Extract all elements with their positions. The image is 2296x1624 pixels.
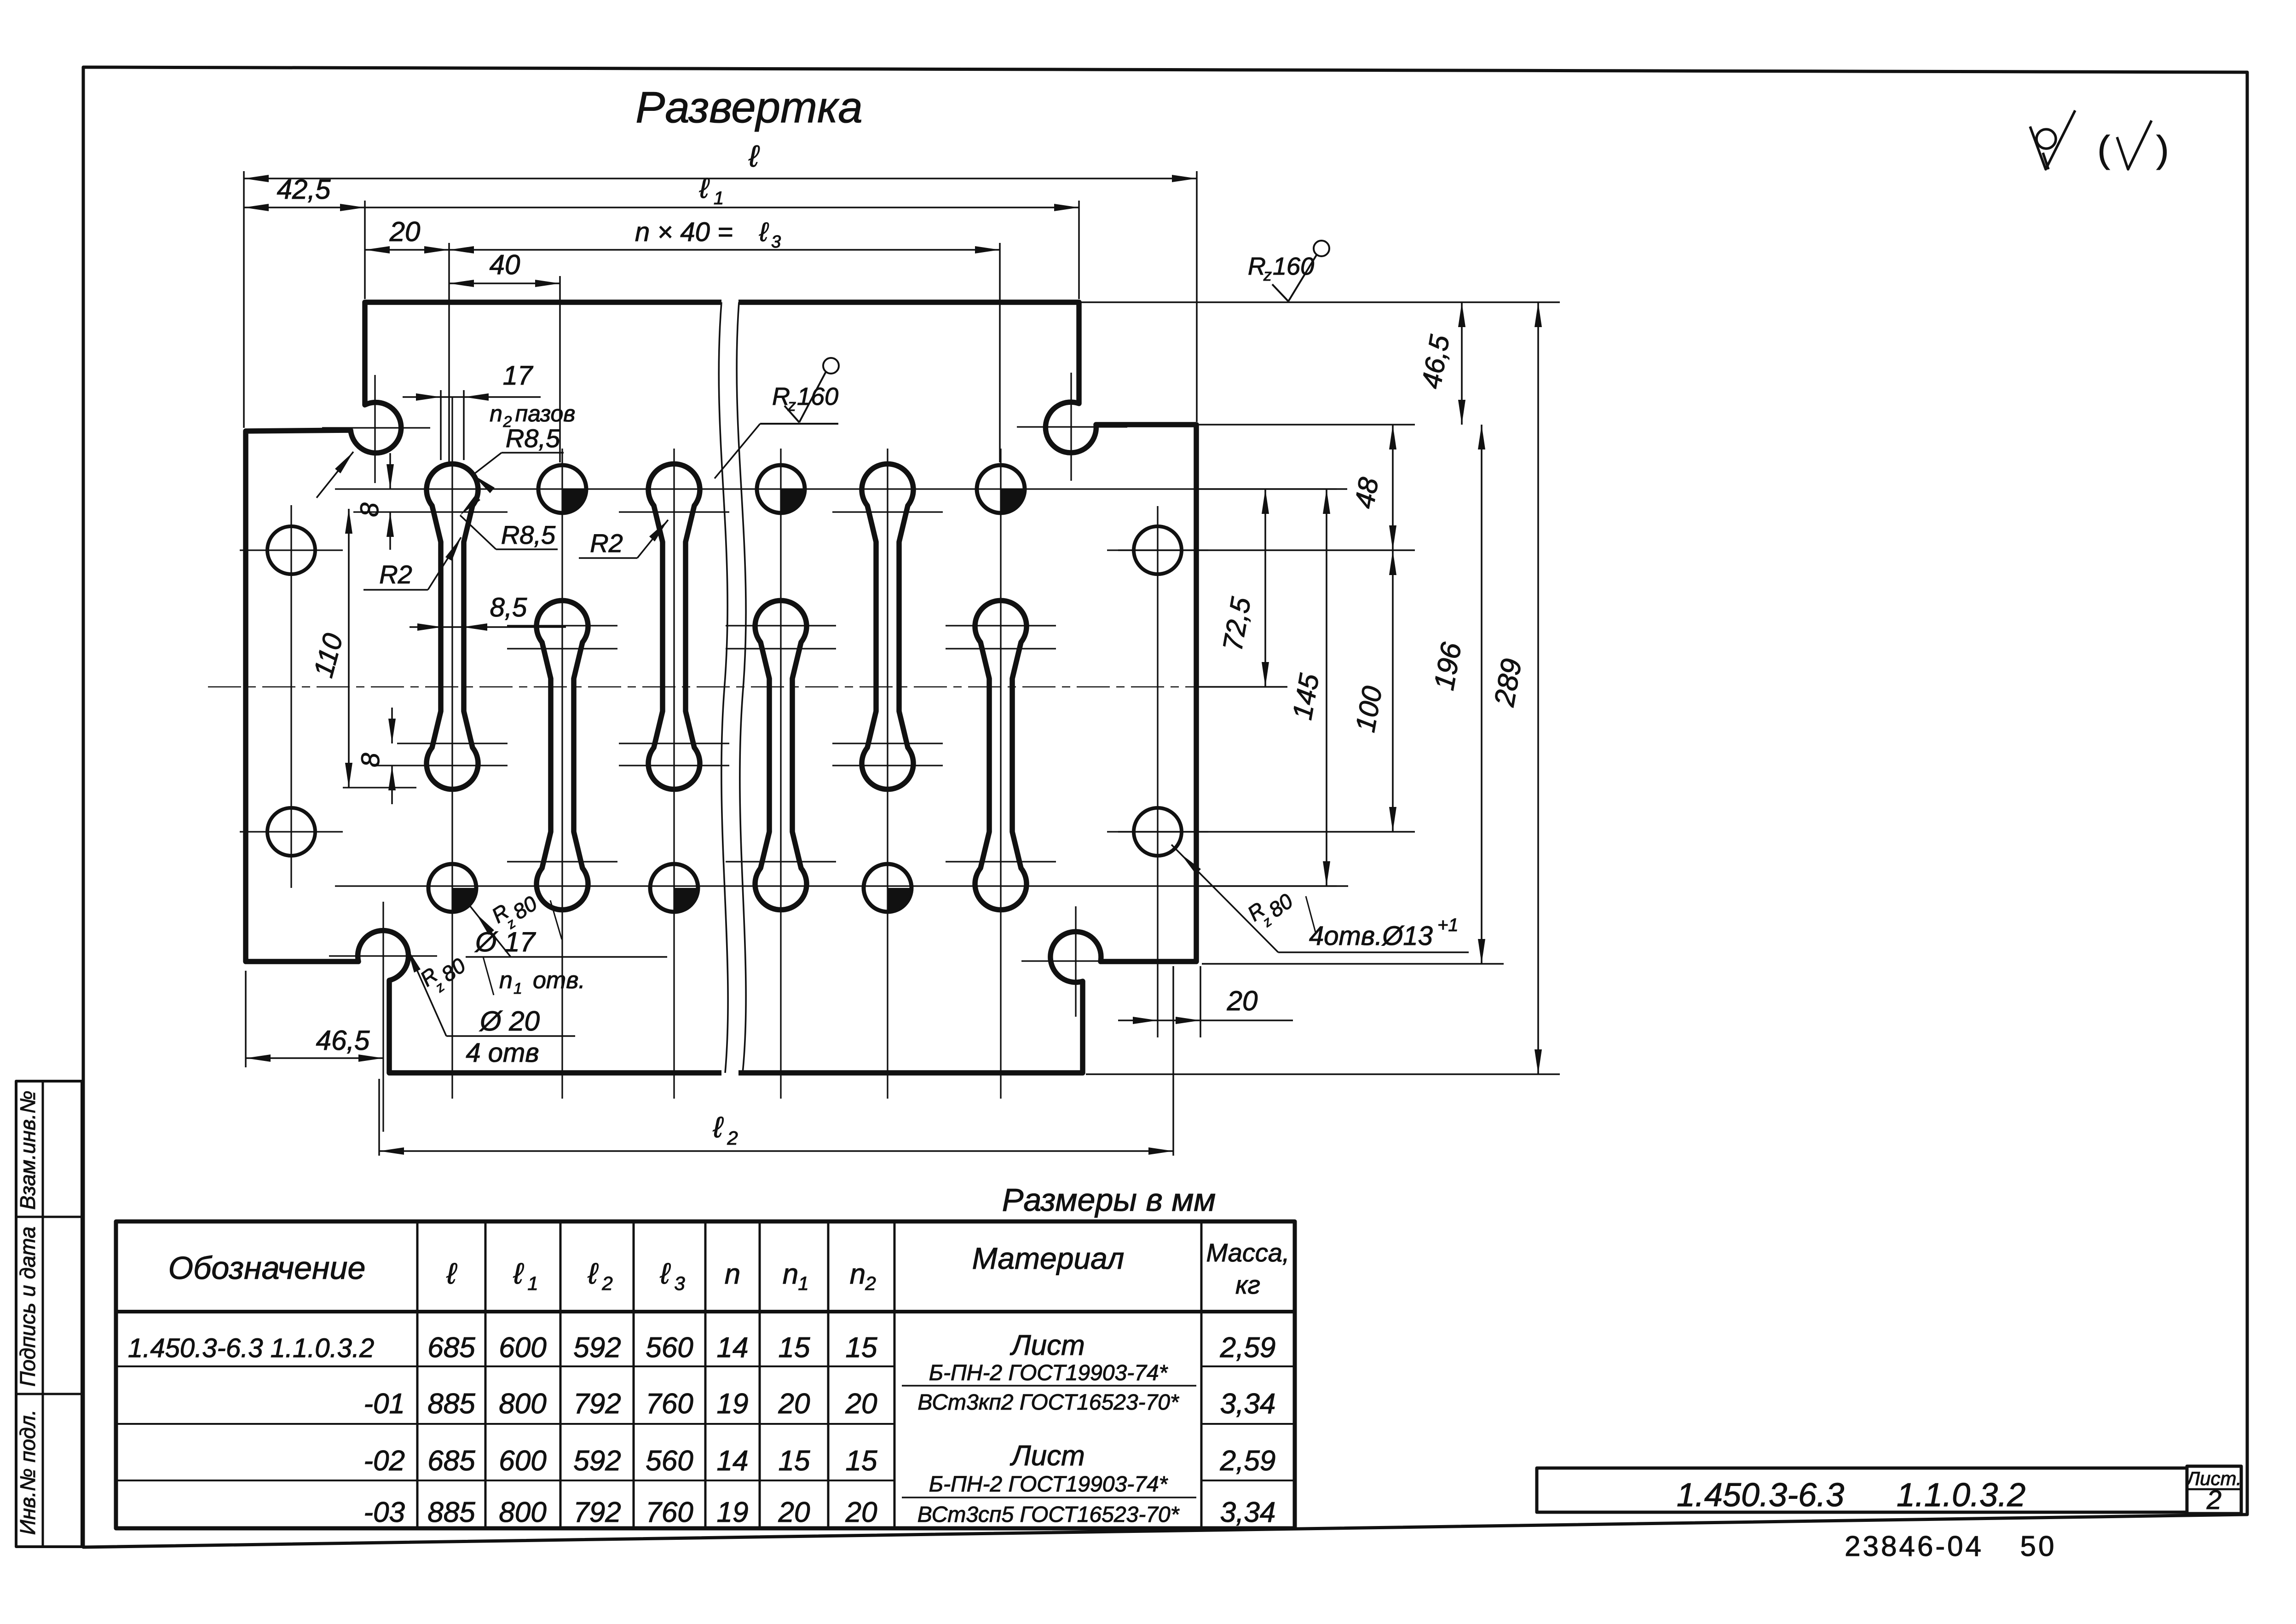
- svg-text:R2: R2: [379, 560, 412, 589]
- hole d13 right top: [1107, 526, 1208, 574]
- table header: [168, 1238, 1290, 1299]
- svg-text:2,59: 2,59: [1220, 1445, 1276, 1477]
- svg-text:ℓ: ℓ: [446, 1257, 457, 1290]
- svg-text:685: 685: [427, 1445, 475, 1477]
- svg-text:ℓ: ℓ: [759, 217, 769, 247]
- d13 left column centerline: [290, 505, 292, 888]
- svg-text:Подпись и дата: Подпись и дата: [16, 1227, 40, 1387]
- svg-text:20: 20: [389, 216, 421, 247]
- svg-text:800: 800: [499, 1388, 546, 1420]
- svg-text:Б-ПН-2 ГОСТ19903-74*: Б-ПН-2 ГОСТ19903-74*: [929, 1472, 1168, 1497]
- svg-text:8,5: 8,5: [490, 593, 527, 622]
- note R8,5 upper: [473, 424, 564, 493]
- svg-text:Обозначение: Обозначение: [168, 1250, 366, 1286]
- svg-text:пазов: пазов: [515, 401, 576, 426]
- svg-text:ℓ: ℓ: [748, 139, 760, 173]
- svg-text:15: 15: [779, 1332, 810, 1364]
- slot A2: [648, 464, 700, 789]
- svg-text:n: n: [783, 1258, 798, 1290]
- svg-text:8: 8: [355, 502, 384, 517]
- svg-text:-01: -01: [363, 1388, 405, 1420]
- dim 289: [1488, 302, 1542, 1074]
- hole d17 #5: [650, 864, 698, 912]
- svg-text:23846-04: 23846-04: [1845, 1531, 1984, 1562]
- svg-text:19: 19: [717, 1497, 749, 1528]
- svg-text:ВСт3кп2 ГОСТ16523-70*: ВСт3кп2 ГОСТ16523-70*: [917, 1390, 1179, 1415]
- dim 20 top: [365, 216, 449, 253]
- hole d13 left bottom: [240, 808, 343, 856]
- svg-text:2: 2: [727, 1127, 738, 1149]
- svg-text:n × 40 =: n × 40 =: [635, 217, 733, 247]
- svg-text:n: n: [499, 967, 513, 994]
- svg-text:Б-ПН-2 ГОСТ19903-74*: Б-ПН-2 ГОСТ19903-74*: [929, 1361, 1168, 1385]
- svg-text:ℓ: ℓ: [713, 1111, 724, 1144]
- dim 48: [1349, 425, 1396, 550]
- svg-text:ВСт3сп5 ГОСТ16523-70*: ВСт3сп5 ГОСТ16523-70*: [917, 1503, 1180, 1527]
- svg-text:1: 1: [798, 1273, 808, 1294]
- svg-text:792: 792: [573, 1497, 621, 1528]
- title block doc number: [1677, 1477, 2025, 1514]
- svg-text:2: 2: [601, 1273, 612, 1294]
- svg-text:46,5: 46,5: [316, 1025, 370, 1056]
- svg-text:1: 1: [513, 980, 522, 997]
- svg-text:17: 17: [503, 361, 534, 391]
- note 4 otv d13: [1171, 845, 1469, 952]
- dim 20 bottom right: [1118, 966, 1293, 1037]
- svg-text:15: 15: [846, 1445, 877, 1477]
- svg-text:1: 1: [714, 188, 724, 208]
- dim n x 40 = L3: [449, 217, 1000, 253]
- hole d17 #6: [864, 864, 911, 912]
- svg-text:14: 14: [717, 1332, 749, 1364]
- svg-text:1: 1: [527, 1273, 538, 1294]
- svg-text:-02: -02: [363, 1445, 405, 1477]
- svg-text:14: 14: [717, 1445, 749, 1477]
- dim 145: [1286, 489, 1330, 886]
- svg-text:Размеры в мм: Размеры в мм: [1002, 1182, 1216, 1218]
- svg-text:1.1.0.3.2: 1.1.0.3.2: [1897, 1477, 2025, 1514]
- svg-text:3: 3: [771, 232, 781, 252]
- svg-text:160: 160: [1273, 253, 1314, 280]
- svg-text:2: 2: [2206, 1485, 2221, 1515]
- svg-text:3: 3: [674, 1273, 685, 1294]
- svg-text:+1: +1: [1437, 915, 1459, 935]
- slot A3: [862, 464, 913, 789]
- dim 17 slots: [403, 361, 575, 460]
- parameters table grid: [116, 1221, 1295, 1528]
- dim 196: [1428, 425, 1485, 964]
- svg-text:1.450.3-6.3 1.1.0.3.2: 1.450.3-6.3 1.1.0.3.2: [128, 1333, 374, 1363]
- svg-text:отв.: отв.: [533, 967, 585, 994]
- svg-text:n: n: [725, 1258, 740, 1290]
- svg-text:8: 8: [356, 753, 385, 767]
- slot B1: [537, 600, 588, 910]
- svg-text:Лист: Лист: [1010, 1330, 1085, 1361]
- svg-text:Взам.инв.№: Взам.инв.№: [16, 1091, 40, 1210]
- svg-text:4отв.Ø13: 4отв.Ø13: [1309, 921, 1433, 951]
- svg-text:800: 800: [499, 1497, 546, 1528]
- dim 46,5 right: [1416, 302, 1465, 425]
- break line: [719, 302, 746, 1073]
- note Rz160 outer: [1248, 241, 1329, 301]
- dim 46,5 bottom: [246, 971, 383, 1067]
- svg-text:Развертка: Развертка: [635, 83, 862, 132]
- notch BR centerlines: [1021, 906, 1132, 1017]
- view title Развертка: [635, 83, 862, 132]
- note R2 left: [363, 537, 461, 590]
- svg-text:n: n: [850, 1258, 865, 1290]
- slot reference ticks: [353, 512, 1056, 862]
- title block: [1537, 1466, 2241, 1514]
- svg-text:885: 885: [427, 1388, 475, 1420]
- svg-text:ℓ: ℓ: [513, 1257, 524, 1290]
- svg-text:40: 40: [490, 249, 520, 280]
- stamp number: [1845, 1531, 2057, 1562]
- svg-text:20: 20: [1227, 985, 1258, 1016]
- svg-text:n: n: [490, 401, 502, 426]
- svg-text:560: 560: [646, 1332, 693, 1364]
- svg-text:42,5: 42,5: [277, 174, 331, 205]
- part outline left portion: [246, 302, 721, 1073]
- notch BL centerlines: [329, 902, 437, 1132]
- svg-text:1.450.3-6.3: 1.450.3-6.3: [1677, 1477, 1844, 1514]
- svg-text:Материал: Материал: [972, 1241, 1125, 1275]
- svg-text:4 отв: 4 отв: [466, 1038, 539, 1068]
- dim 8 top: [355, 453, 394, 550]
- left strip caption Инв.№ подл.: [16, 1410, 40, 1535]
- dim 110: [307, 509, 416, 788]
- left strip caption Подпись и дата: [16, 1227, 40, 1387]
- dim 8 bottom: [356, 708, 396, 804]
- dim L: [244, 139, 1197, 182]
- note R8,5 lower: [460, 495, 558, 549]
- svg-text:19: 19: [717, 1388, 749, 1420]
- dim 42,5: [244, 174, 365, 211]
- dim L1: [365, 173, 1079, 211]
- bottom row centerline: [335, 885, 1337, 887]
- svg-text:z: z: [1263, 265, 1272, 284]
- svg-text:15: 15: [846, 1332, 877, 1364]
- svg-text:2,59: 2,59: [1220, 1332, 1276, 1364]
- svg-text:20: 20: [845, 1497, 877, 1528]
- table data: [128, 1332, 1275, 1528]
- svg-text:2: 2: [865, 1273, 876, 1294]
- svg-text:50: 50: [2020, 1531, 2057, 1562]
- svg-text:кг: кг: [1235, 1270, 1260, 1299]
- svg-text:Лист: Лист: [1010, 1440, 1085, 1472]
- svg-text:R8,5: R8,5: [501, 520, 556, 549]
- dim L2: [379, 966, 1173, 1156]
- svg-text:R2: R2: [590, 529, 623, 558]
- slot B3: [975, 600, 1027, 910]
- svg-text:Инв.№ подл.: Инв.№ подл.: [16, 1410, 40, 1535]
- svg-text:ℓ: ℓ: [588, 1257, 599, 1290]
- svg-text:Ø 17: Ø 17: [474, 927, 537, 957]
- notch TR centerlines: [1017, 373, 1127, 481]
- table material texts: [902, 1330, 1196, 1527]
- svg-text:-03: -03: [363, 1497, 405, 1528]
- dim 40: [449, 249, 560, 287]
- svg-text:20: 20: [845, 1388, 877, 1420]
- d13 right column centerline: [1157, 506, 1158, 1037]
- svg-text:600: 600: [499, 1332, 546, 1364]
- leader TL notch arrow: [317, 452, 353, 498]
- left strip boxes: [16, 1081, 82, 1547]
- svg-text:792: 792: [573, 1388, 621, 1420]
- hole d13 right bottom: [1107, 808, 1208, 856]
- svg-text:592: 592: [573, 1332, 621, 1364]
- svg-text:760: 760: [646, 1497, 693, 1528]
- dim 100: [1350, 550, 1396, 832]
- note R2 right: [579, 520, 668, 558]
- dim 72,5: [1217, 489, 1269, 687]
- right extension lines: [1079, 302, 1560, 1074]
- svg-text:R8,5: R8,5: [506, 424, 560, 453]
- surface finish mark: [2030, 110, 2075, 169]
- svg-text:20: 20: [778, 1497, 810, 1528]
- hole d17 #3: [977, 465, 1025, 513]
- svg-text:Масса,: Масса,: [1206, 1238, 1289, 1267]
- surface finish mark in parentheses: [2097, 121, 2169, 170]
- svg-text:600: 600: [499, 1445, 546, 1477]
- caption sizes: [1002, 1182, 1216, 1218]
- svg-text:48: 48: [1349, 475, 1385, 511]
- svg-text:3,34: 3,34: [1220, 1388, 1276, 1420]
- hole d13 left top: [240, 526, 343, 574]
- title block sheet label: [2185, 1468, 2241, 1489]
- svg-text:20: 20: [778, 1388, 810, 1420]
- svg-text:3,34: 3,34: [1220, 1497, 1276, 1528]
- svg-text:): ): [2156, 128, 2169, 170]
- part outline right portion: [738, 302, 1196, 1073]
- note Rz160 inner: [715, 358, 839, 478]
- svg-text:560: 560: [646, 1445, 693, 1477]
- svg-text:15: 15: [779, 1445, 810, 1477]
- svg-text:685: 685: [427, 1332, 475, 1364]
- top row centerline: [335, 488, 1337, 490]
- feature column centerlines: [452, 397, 1001, 1099]
- horizontal centerline: [208, 686, 1286, 687]
- note d20 notches: [404, 940, 575, 1068]
- slot B2: [755, 600, 807, 910]
- hole d17 #4: [428, 864, 476, 912]
- svg-text:Ø 20: Ø 20: [479, 1006, 540, 1037]
- svg-text:885: 885: [427, 1497, 475, 1528]
- svg-text:(: (: [2097, 128, 2110, 170]
- title block sheet number: [2206, 1485, 2221, 1515]
- notch TL centerlines: [322, 375, 430, 483]
- hole d17 #1: [538, 465, 586, 513]
- dim 8,5 shank: [410, 593, 566, 631]
- slot A1: [427, 464, 478, 789]
- extension lines top: [244, 171, 1197, 462]
- svg-text:ℓ: ℓ: [699, 173, 710, 204]
- svg-text:760: 760: [646, 1388, 693, 1420]
- svg-text:ℓ: ℓ: [660, 1257, 671, 1290]
- left strip caption Взам.инв.№: [16, 1091, 40, 1210]
- hole d17 #2: [757, 465, 805, 513]
- svg-text:592: 592: [573, 1445, 621, 1477]
- note d17 holes: [466, 891, 667, 997]
